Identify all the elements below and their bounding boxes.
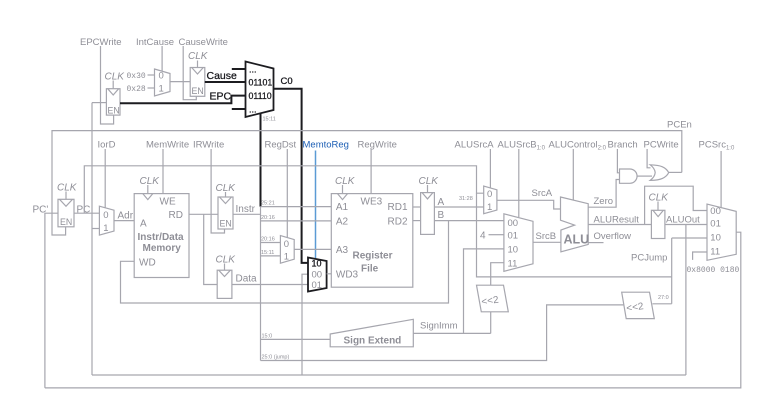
svg-text:01: 01 [508,230,519,241]
label ALUControl [549,140,607,152]
svg-text:0x30: 0x30 [127,72,146,81]
wire Instr out [233,213,261,215]
svg-text:SrcB: SrcB [536,231,557,242]
label 20:16 [261,215,275,221]
wire EPC to C0 mux (new) [120,96,246,104]
svg-text:PCWrite: PCWrite [644,140,679,151]
wire 25:0 jump [261,305,624,361]
label 15:0 [262,333,273,339]
wire PCSrc select [720,151,722,208]
wire ALUOut out [665,224,707,226]
wire ALUResult [588,224,651,226]
register ALUOut [649,193,670,239]
svg-text:C0: C0 [281,76,293,87]
register EPC [105,72,126,116]
svg-text:0: 0 [159,71,164,82]
label PCSrc [699,140,735,152]
wire shifter1 out to SrcB 11 [491,263,504,286]
wire C0 output (new) [274,89,309,263]
wire MemWrite select [162,149,164,194]
svg-text:CLK: CLK [105,72,126,83]
wire ALUResult to PCSrc 00 [645,186,707,224]
svg-text:Memory: Memory [143,243,182,254]
svg-text:Data: Data [236,274,258,285]
svg-text:25:0 (jump): 25:0 (jump) [262,355,290,361]
svg-text:00: 00 [710,206,721,217]
mux C0 (new) [246,62,274,118]
svg-text:Adr: Adr [118,211,134,222]
svg-text:SignImm: SignImm [420,321,458,332]
register Cause [188,51,209,96]
svg-text:0x8000 0180: 0x8000 0180 [687,266,740,275]
wire ALUOut vertical left [91,103,93,375]
svg-text:1: 1 [284,252,289,263]
svg-text:4: 4 [480,231,486,242]
label Adr [118,211,134,222]
wire Branch [617,149,619,173]
wire MemtoReg select (new, blue) [315,151,317,259]
wire C0 mux lower stub [232,108,246,110]
wire 15:0 to Sign Extend [261,338,331,340]
svg-text:A3: A3 [336,245,349,256]
svg-text:WE3: WE3 [361,197,383,208]
label 31:28 [459,196,473,202]
label Instr [236,204,256,215]
svg-text:EN: EN [60,217,72,227]
svg-text:MemWrite: MemWrite [146,140,189,151]
wire 20:16 to RegDst mux 0 [261,242,281,244]
svg-text:CLK: CLK [335,176,356,187]
label B [438,210,445,221]
wire shifter1 in [490,312,492,334]
svg-text:PCSrc1:0: PCSrc1:0 [699,140,735,152]
label C0 [281,76,293,87]
svg-text:1: 1 [487,202,492,213]
bus Instr fields vertical [260,207,262,361]
wire PCWrite [647,149,650,168]
svg-text:RD: RD [169,210,183,221]
op ALU [561,197,590,252]
svg-text:EN: EN [220,219,232,229]
wire ALUOut drop right [685,225,687,376]
svg-text:ALUResult: ALUResult [594,215,640,226]
svg-text:0x28: 0x28 [127,85,146,94]
label Zero [594,196,614,207]
register Data [216,255,237,299]
label 27:0 [658,295,669,301]
svg-text:ALUOut: ALUOut [666,215,700,226]
mux Adr (IorD) [99,206,114,235]
svg-text:ALUControl2:0: ALUControl2:0 [549,140,607,152]
svg-text:File: File [361,264,379,275]
sign extend [330,319,413,347]
label RegDst [265,140,297,151]
wire ALUOut bottom run [92,374,686,376]
label PCWrite [644,140,679,151]
svg-text:WE: WE [160,197,176,208]
svg-text:PCEn: PCEn [667,120,692,131]
wire IntCause mux to Cause D [170,81,190,83]
shifter <<2 jump [622,292,655,318]
wire IntCause select [161,46,163,71]
svg-text:Cause: Cause [207,70,238,82]
svg-text:11: 11 [508,258,518,269]
svg-text:RegDst: RegDst [265,140,297,151]
wire Cause to C0 mux (new) [205,81,246,83]
wire RegDst mux to A3 [294,248,331,250]
label SrcB [536,231,557,242]
wire PCEn [52,131,682,235]
svg-text:A: A [140,219,147,230]
wire PCSrc mux output PC' [45,232,741,388]
svg-text:ALUSrcA: ALUSrcA [455,140,495,151]
svg-text:Overflow: Overflow [594,231,632,242]
svg-text:B: B [438,210,445,221]
wire EPCWrite enable [101,46,114,124]
wire ALUSrcB select [518,149,520,217]
svg-text:...: ... [249,105,257,115]
svg-text:15:11: 15:11 [261,250,274,256]
wire PCJump vertical [671,238,673,304]
wire Zero [588,180,619,208]
wire PC to SrcA mux [84,166,483,213]
wire RD2 to B register [413,220,421,222]
label SignImm [420,321,458,332]
svg-text:00: 00 [312,269,323,280]
register file [331,176,413,287]
wire RD to Instr register [189,213,218,215]
svg-text:0: 0 [103,210,108,221]
wire ALUControl select [572,149,574,200]
wire PC' [45,213,58,388]
label MemtoReg (new, blue) [303,140,349,151]
svg-text:Register: Register [353,251,393,262]
label 20:16 lower [261,237,275,243]
wire PC out [74,212,99,214]
svg-text:...: ... [249,65,257,75]
wire 4 stub [489,234,504,236]
wire SrcB [533,241,561,243]
svg-text:CLK: CLK [216,255,237,266]
label Cause [207,70,238,82]
memory Instr/Data Memory [134,176,189,278]
mux SrcA [484,186,497,214]
label IorD [98,140,116,151]
wire OR output to PCEn [669,171,682,173]
wire ALUOut to EPC D [92,102,106,104]
label ALUOut [666,215,700,226]
svg-text:CLK: CLK [57,183,78,194]
svg-text:10: 10 [312,259,322,269]
label IntCause [136,37,174,48]
svg-text:1: 1 [103,223,108,234]
svg-text:A2: A2 [336,217,349,228]
wire SignImm to SrcB 10 [464,249,504,334]
wire 15:11 to RegDst mux 1 [261,255,281,257]
gate AND branch [620,169,638,183]
svg-text:ALUSrcB1:0: ALUSrcB1:0 [498,140,546,152]
wire B to memory WD [121,221,449,303]
gate OR pcwrite [650,165,669,181]
svg-text:01: 01 [710,218,721,229]
svg-text:15:11: 15:11 [263,117,276,123]
label 0x30 [127,72,146,81]
wire ALUOut to Adr mux 1 [92,228,99,230]
register PC [57,183,78,228]
svg-text:CauseWrite: CauseWrite [179,37,228,48]
svg-text:CLK: CLK [419,176,440,187]
label ALUSrcB [498,140,546,152]
svg-text:A1: A1 [336,202,349,213]
svg-text:IntCause: IntCause [136,37,174,48]
svg-text:CLK: CLK [188,51,209,62]
wire 25:21 to A1 [261,206,332,208]
svg-text:15:0: 15:0 [262,333,273,339]
mux RegDst [280,236,294,264]
wire IRWrite enable [211,149,224,233]
svg-text:EPC: EPC [210,91,232,103]
label ALUSrcA [455,140,495,151]
label EPCWrite [80,37,122,48]
wire 0x8000 0180 [693,252,707,260]
label EPC [210,91,232,103]
register Instr [216,183,237,229]
wire ALUSrcA select [489,149,491,188]
svg-text:31:28: 31:28 [459,196,473,202]
wire RD to Data register [204,214,218,284]
svg-text:MemtoReg: MemtoReg [303,140,349,151]
svg-text:A: A [438,197,445,208]
svg-text:0: 0 [284,239,289,250]
label RegWrite [358,140,397,151]
wire AND to OR [637,175,652,177]
svg-text:WD3: WD3 [336,270,359,281]
svg-text:01101: 01101 [249,78,273,88]
wire C0 select 15:11 (new) [260,114,262,207]
label PCJump [631,253,667,264]
svg-text:EN: EN [108,106,120,116]
label Branch [608,140,638,151]
svg-text:Sign Extend: Sign Extend [344,336,402,347]
svg-text:IorD: IorD [98,140,116,151]
wire 0x30 stub [148,74,155,76]
wire CauseWrite enable [183,46,196,100]
svg-text:EN: EN [192,86,204,96]
svg-text:20:16: 20:16 [261,215,275,221]
mux PCSrc [707,204,736,260]
wire RegWrite enable [370,149,372,194]
svg-text:1: 1 [159,84,164,95]
wire Data to WD3 mux 01 [232,284,308,286]
wire 20:16 to A2 [261,220,332,222]
label PC' [33,205,49,216]
wire B to SrcB mux 00 [434,220,504,222]
label 15:11 [261,250,274,256]
svg-text:01: 01 [312,280,323,291]
svg-text:SrcA: SrcA [532,188,553,199]
wire shifter2 out [653,303,672,305]
label PC [77,205,91,216]
label PCEn [667,120,692,131]
wire ALUOut to WD3 mux 00 [302,274,308,375]
wire SrcA [497,200,561,209]
svg-text:Zero: Zero [594,196,614,207]
svg-text:27:0: 27:0 [658,295,669,301]
label MemWrite [146,140,189,151]
svg-text:20:16: 20:16 [261,237,275,243]
wire Overflow stub [588,242,603,244]
svg-text:CLK: CLK [649,193,670,204]
svg-text:Instr: Instr [236,204,256,215]
wire PCJump to PCSrc 10 [672,237,707,239]
label 25:0 (jump) [262,355,290,361]
label 4 [480,231,486,242]
svg-text:RD1: RD1 [388,202,408,213]
svg-text:11: 11 [710,246,720,257]
svg-text:WD: WD [139,258,156,269]
svg-text:PC': PC' [33,205,49,216]
label 15:11 select [263,117,276,123]
wire 0x28 stub [148,87,155,89]
svg-text:00: 00 [508,218,519,229]
svg-text:01110: 01110 [249,91,272,101]
svg-text:10: 10 [710,232,721,243]
register A/B [419,176,440,234]
svg-text:RegWrite: RegWrite [358,140,397,151]
svg-text:0: 0 [487,189,492,200]
wire RegDst select [286,149,288,238]
svg-text:ALU: ALU [564,233,590,247]
wire RD1 to A register [413,206,421,208]
mux IntCause [155,69,171,96]
wire SignImm [413,332,490,334]
mux WD3 MemtoReg (new) [308,258,327,292]
label ALUResult [594,215,640,226]
svg-text:IRWrite: IRWrite [193,140,224,151]
wire WD3 mux to WD3 [327,273,332,275]
svg-text:PC: PC [77,205,91,216]
label Overflow [594,231,632,242]
wire Adr [114,220,134,222]
mux SrcB [504,214,533,271]
label 0x28 [127,85,146,94]
label Data [236,274,258,285]
svg-text:10: 10 [508,245,519,256]
wire A to SrcA mux 1 [434,206,483,208]
label CauseWrite [179,37,228,48]
svg-text:RD2: RD2 [388,217,408,228]
label SrcA [532,188,553,199]
label 25:21 [261,201,275,207]
svg-text:Branch: Branch [608,140,638,151]
wire PCJump PC[31:28] [477,193,672,277]
label 0x8000 0180 [687,266,740,275]
svg-text:PCJump: PCJump [631,253,667,264]
label A [438,197,445,208]
wire IorD select [104,149,106,208]
label IRWrite [193,140,224,151]
svg-text:CLK: CLK [140,176,161,187]
svg-text:Instr/Data: Instr/Data [138,232,185,243]
svg-text:25:21: 25:21 [261,201,275,207]
wire C0 mux upper stub [232,68,246,70]
shifter <<2 immediate [477,285,509,312]
